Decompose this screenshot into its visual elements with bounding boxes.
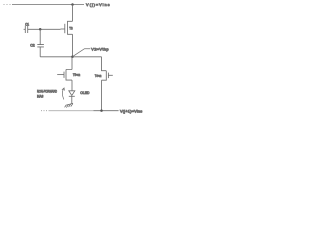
transistor T3 bbox=[61, 21, 73, 34]
svg-text:T5=on: T5=on bbox=[73, 73, 80, 77]
svg-text:BIAS: BIAS bbox=[37, 93, 44, 98]
wire T3 drain down to node V2 bbox=[72, 34, 74, 57]
svg-text:OLED: OLED bbox=[80, 90, 89, 95]
wire scan line V(j+1) dotted lead-in bbox=[41, 110, 47, 112]
wire scan line V(j) solid rail bbox=[12, 4, 84, 6]
svg-text:V(j)=Vins: V(j)=Vins bbox=[86, 2, 110, 7]
node junction dot at C2 tap bbox=[39, 28, 42, 31]
wire node V2 horizontal bbox=[40, 56, 101, 58]
wire scan line V(j+1) solid rail bbox=[94, 110, 119, 112]
svg-text:C1: C1 bbox=[25, 22, 29, 26]
capacitor C1 bbox=[24, 22, 29, 33]
svg-text:V(j+1)=Vins: V(j+1)=Vins bbox=[120, 108, 142, 113]
leader line to V2 label bbox=[73, 49, 91, 57]
node junction dot on bottom rail bbox=[100, 109, 103, 112]
svg-text:T4=on: T4=on bbox=[95, 74, 102, 78]
wire T4 source down to scan line V(j+1) bbox=[101, 80, 103, 110]
transistor T5 bbox=[57, 70, 80, 81]
wire from top rail down to T3 source bbox=[72, 5, 74, 22]
capacitor C2 bbox=[30, 43, 44, 47]
svg-text:T3: T3 bbox=[69, 27, 72, 31]
wire junction down to C2 bbox=[39, 29, 41, 44]
diode OLED bbox=[69, 90, 90, 103]
wire scan line V(j) dotted lead-in bbox=[4, 4, 11, 6]
svg-text:C2: C2 bbox=[30, 43, 34, 47]
node junction dot V2 bbox=[71, 56, 74, 59]
non-forward bias curved arrow bbox=[62, 88, 64, 99]
node junction dot on top rail bbox=[71, 3, 74, 6]
transistor T4 bbox=[95, 71, 113, 81]
wire node V2 right branch down to T4 bbox=[102, 57, 107, 71]
svg-text:V2=Vthp: V2=Vthp bbox=[91, 46, 108, 51]
wire C2 bottom down to node V2 line bbox=[39, 47, 41, 57]
ground bbox=[65, 103, 73, 107]
wire T5 source down to OLED anode bbox=[71, 80, 73, 91]
wire scan line V(j+1) faint segment bbox=[49, 110, 94, 112]
wire node V2 down to T5 bbox=[66, 57, 72, 70]
wire C1 to T3 gate bbox=[28, 28, 61, 30]
